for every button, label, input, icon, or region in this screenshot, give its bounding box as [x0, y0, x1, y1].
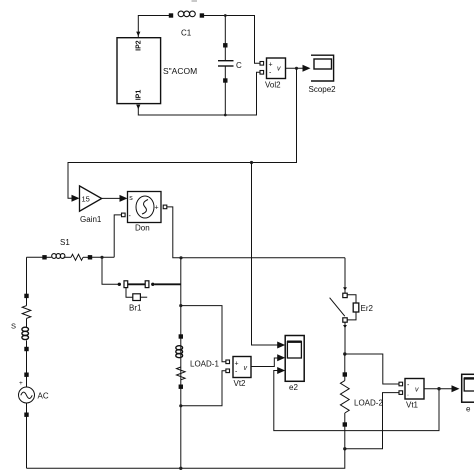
scope e2: [285, 336, 304, 382]
svg-text:LOAD-2: LOAD-2: [354, 399, 383, 408]
bottom rail wire: [27, 449, 345, 469]
node LOAD-1 top tap: [179, 304, 182, 307]
svg-text:S"ACOM: S"ACOM: [163, 66, 197, 76]
wire feedback from vol2 node down-left to gain: [68, 68, 297, 198]
svg-text:IP1: IP1: [136, 90, 143, 101]
port arrow top: [136, 32, 140, 37]
wire node to Vt1 minus: [345, 393, 399, 449]
svg-text:Don: Don: [135, 224, 150, 233]
svg-text:C1: C1: [181, 29, 192, 38]
resistor branch LOAD-2: [340, 354, 349, 449]
node bus bottom: [179, 467, 182, 470]
wire Vt2 minus loop: [181, 371, 226, 406]
wire S1 node down to Br1 line: [102, 257, 119, 284]
arrow into Don: [120, 195, 128, 202]
arrow e2 input3: [277, 367, 285, 374]
svg-text:v: v: [415, 386, 419, 393]
svg-text:S: S: [11, 322, 16, 331]
svg-text:Gain1: Gain1: [80, 215, 102, 224]
node feedback branch: [250, 161, 253, 164]
svg-text:s: s: [129, 195, 133, 202]
arrow e2 input2: [277, 354, 285, 361]
node LOAD-2 top: [343, 352, 346, 355]
svg-text:.: .: [407, 391, 409, 398]
series RL branch S: [22, 294, 31, 373]
svg-text:+: +: [155, 205, 159, 212]
capacitor C branch: [218, 16, 234, 116]
inductor C1: [169, 11, 203, 17]
AC voltage source: [19, 373, 35, 468]
svg-text:+: +: [269, 62, 273, 69]
voltage measurement Vt1: [399, 379, 424, 400]
svg-text:Er2: Er2: [361, 304, 374, 313]
wire S1 left corner down AC branch: [26, 257, 28, 294]
breaker Br1 icon: [126, 288, 147, 301]
svg-text:Vt1: Vt1: [406, 401, 419, 410]
wire statcom top to C1: [138, 16, 171, 38]
arrow into scope e: [452, 385, 460, 392]
node bus top: [179, 256, 182, 259]
arrow into Scope2: [303, 65, 311, 72]
wire statcom bottom rail: [138, 72, 260, 115]
switch breaker Er2: [330, 258, 359, 354]
svg-text:e2: e2: [289, 383, 298, 392]
node vol2 out: [295, 67, 298, 70]
svg-text:e: e: [466, 405, 471, 414]
wire Don minus down to S1 line: [114, 215, 121, 257]
STATCOM subsystem block: [117, 38, 197, 104]
series RL branch S1: [27, 254, 115, 261]
wire Vt1 out to scope e: [424, 388, 452, 390]
svg-text:Vt2: Vt2: [234, 379, 247, 388]
svg-text:v: v: [244, 365, 248, 372]
scope e: [462, 374, 474, 402]
series RL branch LOAD-1: [176, 335, 185, 389]
node Vt1 out: [437, 387, 440, 390]
wire e2 input3 from Vt1 out junction: [274, 371, 439, 431]
arrow into Gain1: [72, 195, 80, 202]
svg-text:+: +: [235, 361, 239, 368]
main bus vertical wire: [180, 258, 182, 469]
wire to Vt1 plus: [345, 354, 399, 384]
controlled voltage source Don: [122, 192, 167, 223]
port arrow bottom: [136, 105, 140, 110]
svg-text:v: v: [277, 65, 281, 72]
wire tap to Vt2 plus: [181, 306, 226, 362]
node S1 out: [100, 256, 103, 259]
wire gain to Don: [102, 197, 120, 199]
svg-text:Scope2: Scope2: [309, 85, 337, 94]
svg-text:15: 15: [82, 195, 90, 204]
scope Scope2: [311, 55, 334, 81]
svg-text:AC: AC: [38, 392, 49, 401]
svg-text:S1: S1: [60, 238, 70, 247]
breaker Br1 line: [118, 281, 181, 288]
faint cropped mark at top edge: [192, 0, 198, 2]
svg-text:C: C: [236, 61, 242, 70]
voltage measurement Vt2: [226, 357, 251, 378]
svg-text:Vol2: Vol2: [265, 81, 281, 90]
node LOAD-1 bottom tap: [179, 404, 182, 407]
svg-text:+: +: [19, 380, 23, 387]
wire Vol2 out to Scope2: [286, 67, 304, 69]
svg-text:Br1: Br1: [129, 304, 142, 313]
wire Don plus out to bus: [167, 207, 345, 258]
wire Vt2 out to e2 input2: [251, 358, 278, 367]
node cap top: [224, 14, 227, 17]
wire branch node down to e2 input1: [252, 163, 279, 346]
svg-text:LOAD-1: LOAD-1: [190, 360, 219, 369]
gain Gain1: [80, 186, 102, 211]
node cap bottom: [224, 114, 227, 117]
node LOAD-2 bottom: [343, 447, 346, 450]
svg-text:IP2: IP2: [136, 40, 143, 51]
voltage measurement Vol2: [260, 58, 286, 79]
arrow e2 input1: [277, 342, 285, 349]
wire C1 to corner: [204, 16, 260, 64]
